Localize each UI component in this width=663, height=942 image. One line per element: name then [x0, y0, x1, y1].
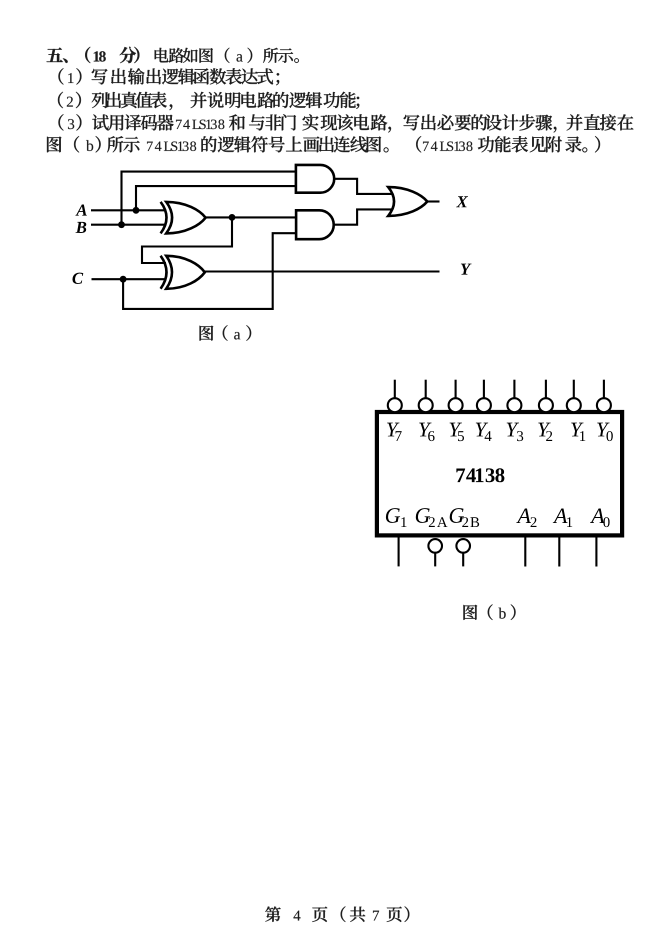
74138 decoder U1 body outline	[377, 412, 622, 535]
junction dot on C line	[120, 276, 127, 283]
wire A riser to AND1 bottom input	[136, 186, 297, 210]
pin Y7 lead	[394, 380, 396, 399]
pin label Y4	[476, 423, 488, 437]
pin Y6 inversion bubble	[419, 398, 433, 412]
net label A	[75, 205, 86, 216]
xor-gate XOR1 body (A XOR B)	[166, 202, 205, 234]
pin Y3 inversion bubble	[507, 398, 521, 412]
pin Y3 lead	[513, 380, 515, 399]
junction dot on B line	[118, 221, 125, 228]
junction dot on A line	[133, 207, 140, 214]
pin G2B inversion bubble	[456, 539, 470, 553]
pin label Y6	[419, 423, 431, 437]
or-gate OR1 output X	[388, 187, 427, 216]
pin Y4 inversion bubble	[477, 398, 491, 412]
net label C	[72, 273, 83, 284]
pin label Y1	[571, 423, 583, 437]
wire OR1 output to X	[427, 200, 440, 202]
pin Y2 inversion bubble	[539, 398, 553, 412]
pin label Y0	[597, 423, 609, 437]
wire AND2 output to OR1 bottom input	[332, 209, 398, 224]
wire XOR2 output to Y	[203, 270, 440, 272]
net label Y	[461, 264, 472, 275]
xor-gate XOR1 input-side arc	[161, 202, 167, 234]
pin label Y5	[450, 423, 462, 437]
and-gate AND2 computing (A XOR B) AND C	[296, 210, 334, 239]
wire AND1 output to OR1 top input	[333, 179, 398, 194]
pin label Y3	[507, 423, 519, 437]
wire input A	[91, 209, 166, 211]
pin Y7 inversion bubble	[388, 398, 402, 412]
pin Y1 inversion bubble	[567, 398, 581, 412]
pin Y0 inversion bubble	[597, 398, 611, 412]
wire C branch bottom rail up to AND2 bottom input	[123, 233, 297, 309]
wire B riser to AND1 top input	[122, 172, 298, 225]
pin A2 lead	[524, 537, 526, 567]
xor-gate XOR2 input-side arc	[161, 256, 167, 289]
pin label G2B	[450, 508, 464, 523]
and-gate AND1 computing A AND B	[296, 165, 334, 193]
pin Y1 lead	[573, 380, 575, 399]
pin Y4 lead	[483, 380, 485, 399]
pin G1 lead	[398, 537, 400, 566]
wire input C	[92, 278, 167, 280]
wire XOR1 output branch down-left to XOR2 top input	[142, 217, 232, 263]
pin label Y7	[387, 423, 399, 437]
pin G2A lead	[434, 552, 436, 566]
pin Y5 lead	[455, 380, 457, 399]
net label X	[456, 196, 468, 207]
pin label A0	[590, 508, 605, 523]
pin label G2A	[416, 508, 430, 523]
junction dot at XOR1 output	[229, 214, 236, 221]
pin label A1	[553, 508, 568, 523]
pin Y0 lead	[603, 380, 605, 399]
net label B	[76, 222, 87, 233]
pin label A2	[516, 508, 531, 523]
part number / value label 74138	[456, 468, 465, 482]
pin label G1	[386, 508, 400, 523]
wire input B	[91, 224, 166, 226]
pin Y5 inversion bubble	[449, 398, 463, 412]
pin G2B lead	[462, 552, 464, 566]
xor-gate XOR2 body ((A XOR B) XOR C)	[166, 256, 205, 289]
wire XOR1 output to AND2 top input	[204, 216, 298, 218]
pin A0 lead	[595, 537, 597, 567]
pin Y6 lead	[425, 380, 427, 399]
pin label Y2	[538, 423, 550, 437]
pin A1 lead	[558, 537, 560, 567]
pin Y2 lead	[545, 380, 547, 399]
pin G2A inversion bubble	[428, 539, 442, 553]
